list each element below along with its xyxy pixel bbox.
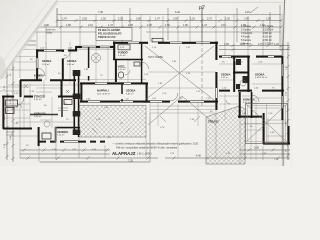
- bath cluster fixtures dark: [236, 59, 248, 89]
- paper background: [0, 0, 292, 166]
- window central right vertical: [216, 88, 218, 98]
- fold edge line: [0, 0, 57, 78]
- terrace right X: [246, 104, 287, 142]
- wall kitchen mid: [30, 114, 58, 116]
- construction horizontals across plan: [0, 50, 286, 137]
- bath fixtures: [118, 45, 140, 78]
- axis marker p2: [198, 5, 205, 108]
- room label vendeg: [57, 129, 68, 137]
- axis line x280: [279, 5, 281, 50]
- dimension line top C with ticks: [10, 26, 283, 29]
- wall lower-left wing west: [80, 83, 82, 102]
- wall spine east double: [78, 70, 80, 137]
- wall lower-left wing north: [80, 82, 148, 84]
- window right wing north: [222, 56, 274, 58]
- room label szoba lower-mid: [126, 89, 135, 96]
- window central south: [150, 101, 204, 103]
- spine wall junction blocks: [73, 70, 81, 135]
- hatched terrace right: [206, 106, 245, 164]
- wall left wing top east part: [76, 46, 114, 48]
- room label konyha right: [243, 97, 255, 104]
- terrace right inner line: [248, 106, 286, 142]
- flue circle right: [240, 80, 246, 86]
- right margin dim column: [287, 42, 290, 160]
- wall upper-centre top: [113, 42, 218, 44]
- door swing central: [170, 93, 178, 101]
- right wing dim ticks: [232, 44, 284, 51]
- wall bath cluster mid: [233, 72, 249, 74]
- extension lines vertical to top dims: [20, 14, 282, 78]
- room label kamra: [34, 73, 44, 80]
- wall partition x88: [88, 47, 90, 81]
- stray slash top-right: [250, 7, 258, 13]
- flue circle: [92, 54, 101, 63]
- window right outer east: [282, 64, 284, 108]
- terrace right outline: [246, 104, 288, 144]
- dim numbers top row: [62, 11, 271, 20]
- wall left wing west: [36, 49, 38, 79]
- window bottom-left wing south: [64, 141, 78, 143]
- room label szoba mid: [67, 59, 76, 66]
- dimension line top D: [10, 31, 281, 33]
- wall kazan east: [239, 92, 241, 118]
- dimension line top A: [57, 14, 281, 16]
- porch step upper-centre: [152, 38, 163, 42]
- wall spine west double: [73, 70, 75, 135]
- micro dim numbers scattered: [14, 47, 279, 161]
- window lower-left wing north: [95, 83, 131, 85]
- room label szoba lower-left: [97, 89, 111, 96]
- room label wc: [118, 64, 126, 71]
- axis line x168: [167, 8, 169, 40]
- wall central south: [143, 101, 218, 103]
- notes bottom: [112, 142, 199, 150]
- wall step connector x76: [75, 46, 77, 52]
- kitchen counter fixtures: [6, 100, 73, 140]
- axis stub x57: [56, 8, 58, 27]
- terrace right cross: [246, 104, 288, 144]
- fold shadow band on page: [1, 1, 58, 78]
- dimension line top B with ticks: [56, 19, 283, 22]
- axis line x270: [269, 12, 271, 45]
- dim numbers second row: [20, 24, 265, 27]
- door swing right wing: [228, 57, 236, 65]
- window left wing top east: [82, 46, 110, 48]
- wall kitchen north: [2, 96, 80, 98]
- window lower-left wing south: [88, 101, 133, 103]
- folded corner top-left cover: [0, 0, 57, 78]
- wall upper-centre left vertical: [113, 42, 115, 60]
- room label terasz: [208, 119, 219, 123]
- fold corner smudge: [0, 56, 5, 80]
- wall left outer lower: [2, 97, 4, 130]
- room label szoba right1: [221, 72, 230, 79]
- wall bottom-left wing south: [38, 141, 105, 143]
- door swing right lower: [252, 95, 259, 102]
- wall left wing top west part: [36, 49, 76, 51]
- wall central bath mid: [113, 59, 143, 61]
- wall hall mid y80: [63, 79, 76, 81]
- fold inner crease: [1, 1, 49, 64]
- wall terrace L horizontal: [263, 143, 290, 145]
- stray marks: [6, 70, 230, 135]
- wall x61 vertical: [62, 50, 63, 98]
- room label konyha: [34, 111, 46, 118]
- window left wing top west: [44, 50, 56, 52]
- wall vendeg north: [55, 127, 80, 129]
- room label etkezo: [34, 93, 45, 101]
- window left wing west: [36, 58, 38, 68]
- wall lower-left wing partition: [121, 83, 123, 101]
- left margin dim column: [6, 45, 15, 162]
- wall hall south: [20, 79, 63, 81]
- door swing west room: [37, 68, 45, 76]
- micro vertical numbers left margin: [4, 61, 288, 152]
- bottom dim lines left: [20, 149, 158, 163]
- door swing hall: [63, 51, 71, 59]
- legend top-right: [241, 24, 273, 46]
- right wing dim lines: [219, 46, 290, 50]
- note box top-left: [96, 27, 132, 41]
- dim numbers right wing row: [224, 43, 279, 46]
- wall right lower mid: [251, 92, 253, 118]
- construction verticals: [24, 42, 268, 162]
- room label szoba right2: [255, 72, 268, 79]
- wall right wing mid: [219, 90, 284, 92]
- title alaprajz: [112, 151, 152, 156]
- wall lower-left wing south: [80, 101, 148, 103]
- roof X central: [145, 46, 214, 100]
- wall x62 lower extension: [61, 97, 63, 117]
- wall bath cluster east: [247, 56, 249, 92]
- scan vignette: [0, 0, 292, 166]
- axis tick small top left: [129, 8, 131, 40]
- wall terrace L vertical: [263, 113, 265, 144]
- axis line x237: [236, 8, 238, 42]
- wall bottom-left wing west: [38, 127, 40, 146]
- paper top edge line: [57, 1, 284, 4]
- wall x20 vertical: [20, 80, 22, 97]
- wall bath cluster west: [233, 56, 235, 92]
- door swing corridor: [142, 62, 149, 69]
- terrace steps central: [150, 106, 215, 113]
- roof ridge central: [179, 46, 181, 100]
- wall terrace outer east: [287, 126, 289, 144]
- right paper edge line: [283, 0, 285, 166]
- wall right outer east: [281, 56, 283, 120]
- right paper edge strip: [283, 0, 292, 166]
- scan grain overlay: [0, 0, 292, 166]
- wall left bottom: [3, 128, 32, 130]
- wall right wing north: [219, 56, 282, 58]
- window lines upper-centre: [128, 42, 210, 44]
- roof V south terrace: [148, 96, 216, 125]
- door swing kitchen: [15, 97, 24, 106]
- wall lower-left wing east: [146, 83, 148, 102]
- hatched terrace left: [79, 106, 146, 138]
- left wing dim stubs: [8, 41, 36, 45]
- wall right lower south: [238, 116, 262, 118]
- extension lines vertical to bottom dims: [20, 97, 288, 164]
- wall central bath west: [115, 60, 117, 82]
- wall vendeg west grey: [55, 127, 57, 142]
- room label furdo: [118, 49, 128, 57]
- wall central bath east: [141, 44, 143, 83]
- room label szoba west: [42, 59, 51, 66]
- bottom dim lines right: [165, 149, 290, 160]
- wall central right vertical: [215, 42, 217, 110]
